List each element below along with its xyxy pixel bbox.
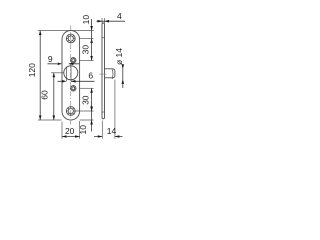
- svg-text:30: 30: [81, 95, 91, 105]
- dim 9 line: [48, 63, 80, 65]
- dim o14 line: [122, 65, 124, 89]
- ext line lower small hole (y=88.3): [80, 87, 94, 89]
- svg-text:20: 20: [65, 126, 75, 136]
- dim 30 top line: [91, 39, 93, 61]
- dim 30 bottom line: [91, 88, 93, 111]
- ext lines 4-dim side bar: [102, 18, 105, 23]
- ext line upper small hole (y=60.3): [80, 60, 94, 62]
- ext line 60-dim top (stud center): [51, 72, 64, 74]
- dim 20 line: [62, 136, 80, 138]
- screw hole bottom: [66, 107, 75, 116]
- svg-text:4: 4: [117, 11, 122, 21]
- side view hole tick top: [102, 37, 105, 39]
- side view bar: [102, 23, 105, 119]
- svg-text:14: 14: [107, 126, 117, 136]
- ext line plate top (y=30.5): [38, 30, 94, 32]
- ext lines 20-dim verticals: [62, 121, 80, 139]
- dim 10 bottom line: [91, 105, 93, 132]
- dim 14 line: [94, 136, 123, 138]
- dim 60 line: [53, 73, 55, 120]
- svg-text:30: 30: [80, 45, 90, 55]
- stud side view: [105, 69, 115, 79]
- side view hole tick bottom: [102, 111, 105, 113]
- ext line bottom screw hole (y=111): [76, 110, 94, 112]
- stud circle front: [64, 66, 78, 80]
- screw hole top: [66, 34, 75, 43]
- dim 120 line: [39, 31, 41, 121]
- centerline front view: [70, 26, 72, 125]
- svg-text:10: 10: [78, 125, 88, 135]
- svg-text:120: 120: [27, 63, 37, 77]
- stud slot lines: [67, 67, 72, 82]
- svg-text:ø 14: ø 14: [114, 48, 124, 65]
- dim 10 top line: [91, 19, 93, 44]
- ext line plate bottom (y=120): [38, 119, 94, 121]
- front view plate outline: [62, 31, 80, 121]
- ext line stud right face down: [114, 80, 116, 139]
- svg-text:6: 6: [88, 71, 93, 81]
- svg-text:10: 10: [81, 15, 91, 25]
- ext line bar left edge down: [101, 121, 103, 139]
- small hole upper: [70, 57, 76, 63]
- svg-text:60: 60: [40, 90, 50, 100]
- dim 4 line: [97, 20, 126, 22]
- ext line top hole (y=38.5): [80, 38, 94, 40]
- svg-text:9: 9: [48, 54, 53, 64]
- stud center tick side: [100, 73, 107, 75]
- small hole lower: [70, 85, 76, 91]
- dim 6 line: [58, 80, 95, 82]
